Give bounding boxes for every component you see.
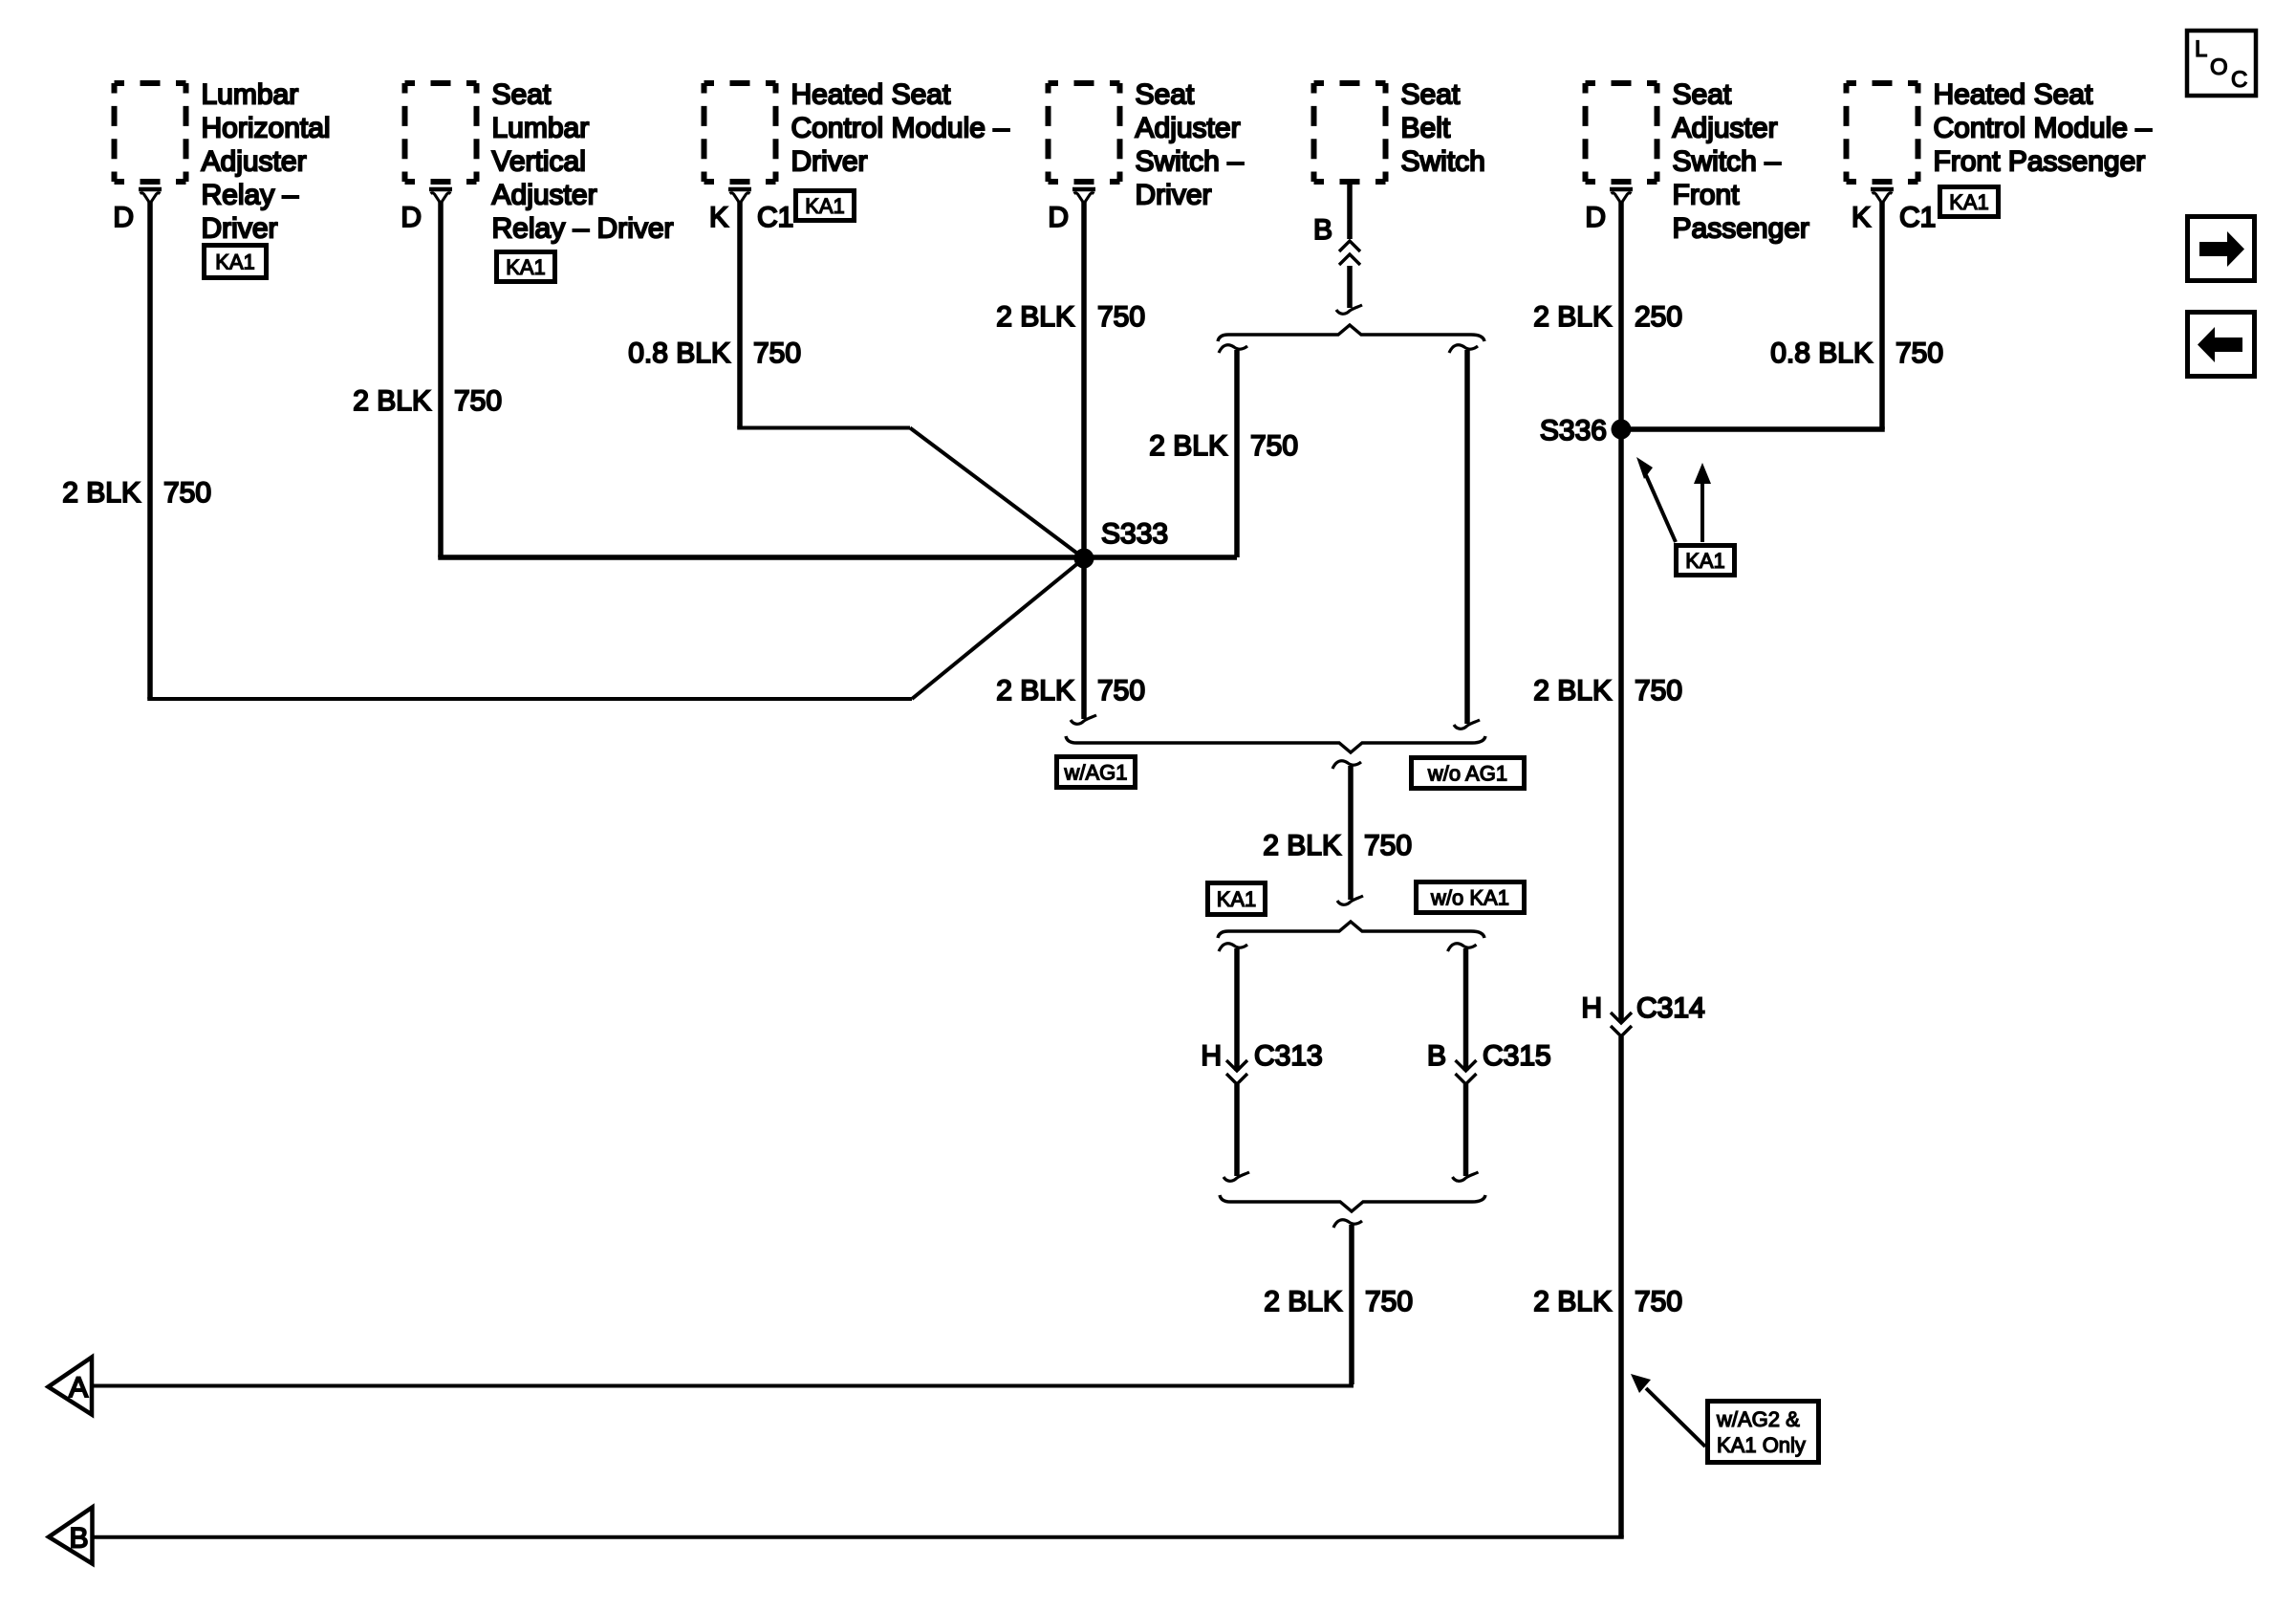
svg-text:C: C	[2231, 67, 2247, 93]
wire 2 BLK 750 below splice S336 through connector C314	[1611, 429, 1632, 1537]
terminal fork pin of connector 6	[1610, 189, 1633, 202]
previous-page left arrow icon	[2188, 313, 2255, 377]
horizontal wire through splice S333	[438, 555, 1237, 560]
svg-text:250: 250	[1635, 301, 1682, 333]
horizontal wire from splice S336 to wire 7	[1621, 426, 1885, 432]
terminal fork pin of connector 3	[728, 189, 751, 202]
terminal fork pin of connector 7	[1871, 189, 1894, 202]
svg-text:KA1: KA1	[1949, 190, 1989, 214]
brace splitting Seat Belt Switch wire into w/AG1 and w/o AG1 branches	[1218, 325, 1484, 341]
svg-text:K: K	[709, 202, 728, 233]
wire 2 BLK 750 from Seat Lumbar Vertical Adjuster Relay pin D	[438, 201, 444, 557]
next-page right arrow icon	[2188, 217, 2255, 281]
connector Seat Belt Switch	[1314, 79, 1485, 183]
svg-text:C313: C313	[1254, 1040, 1323, 1072]
connector Seat Adjuster Switch - Driver	[1049, 79, 1245, 211]
brace merging w/AG1 and w/o AG1 into single ground wire	[1066, 736, 1485, 752]
svg-text:2 BLK: 2 BLK	[996, 301, 1074, 333]
connector Lumbar Horizontal Adjuster Relay - Driver	[115, 79, 331, 245]
svg-text:2 BLK: 2 BLK	[996, 675, 1074, 707]
label 0.8 BLK 750 (wire 3)	[628, 337, 801, 369]
w/o KA1 branch wire through connector C315	[1448, 944, 1479, 1182]
svg-text:KA1: KA1	[805, 194, 845, 218]
svg-text:KA1: KA1	[1217, 887, 1257, 911]
KA1 tag (middle option)	[1208, 883, 1266, 915]
KA1 branch wire through connector C313	[1219, 944, 1249, 1182]
svg-text:750: 750	[1365, 1286, 1413, 1317]
brace merging KA1 / w/o KA1 branches	[1220, 1195, 1485, 1211]
label 2 BLK 750 (wire 6 bottom)	[1533, 1286, 1682, 1317]
svg-text:K: K	[1852, 202, 1871, 233]
svg-text:KA1: KA1	[1685, 549, 1725, 573]
pin H and connector C314 label	[1581, 992, 1704, 1024]
wire lead A to ground G305	[92, 1384, 1354, 1388]
label 0.8 BLK 750 (wire 7)	[1770, 337, 1943, 369]
wire 2 BLK 750 from Lumbar Horizontal Adjuster Relay pin D	[147, 201, 1084, 699]
svg-text:2 BLK: 2 BLK	[1533, 301, 1612, 333]
KA1 tag (connector 3)	[796, 191, 855, 221]
svg-text:B: B	[1313, 214, 1332, 246]
svg-text:KA1: KA1	[506, 255, 546, 279]
wire 0.8 BLK 750 from Heated Seat Control Module - Front Passenger pin K	[1879, 201, 1885, 429]
svg-text:2 BLK: 2 BLK	[1264, 1286, 1342, 1317]
svg-text:2 BLK: 2 BLK	[1263, 830, 1341, 861]
svg-text:C314: C314	[1636, 992, 1705, 1024]
splice S333	[1074, 518, 1169, 569]
label 2 BLK 750 (bottom merge wire)	[1264, 1286, 1413, 1317]
svg-text:w/AG1: w/AG1	[1063, 760, 1127, 784]
svg-text:S336: S336	[1540, 415, 1607, 446]
label 2 BLK 750 (wire 4 upper)	[996, 301, 1145, 333]
svg-text:KA1 Only: KA1 Only	[1717, 1433, 1806, 1457]
svg-text:750: 750	[163, 477, 211, 509]
svg-text:L: L	[2195, 36, 2207, 62]
connector Heated Seat Control Module - Driver C1	[704, 79, 1010, 183]
svg-text:750: 750	[1097, 675, 1145, 707]
off-page triangle A	[49, 1358, 93, 1415]
wire from Seat Belt Switch pin B with harness continuation chevrons	[1336, 185, 1362, 314]
svg-text:0.8 BLK: 0.8 BLK	[628, 337, 730, 369]
svg-text:H: H	[1581, 992, 1602, 1024]
svg-text:750: 750	[1895, 337, 1943, 369]
label 2 BLK 750 (wire 2)	[353, 385, 502, 417]
svg-text:C1: C1	[757, 202, 793, 233]
left branch wire (to S333 horizontal)	[1219, 345, 1247, 557]
svg-text:750: 750	[454, 385, 502, 417]
wire 2 BLK 250 from Seat Adjuster Switch - Front Passenger pin D	[1618, 201, 1624, 429]
svg-text:w/o AG1: w/o AG1	[1427, 761, 1507, 785]
svg-text:750: 750	[1250, 430, 1298, 462]
label 2 BLK 750 (left branch)	[1149, 430, 1298, 462]
svg-text:C315: C315	[1483, 1040, 1551, 1072]
terminal fork pin of connector 1	[139, 189, 162, 202]
svg-text:w/o KA1: w/o KA1	[1430, 885, 1509, 909]
KA1 tag (connector 7)	[1940, 187, 1999, 217]
w/o KA1 tag	[1417, 882, 1525, 913]
svg-text:750: 750	[1364, 830, 1412, 861]
right branch wire (w/o AG1)	[1449, 345, 1480, 729]
brace splitting into KA1 and w/o KA1 branches	[1218, 922, 1484, 938]
svg-text:A: A	[69, 1372, 88, 1404]
wire 2 BLK 750 between option braces	[1332, 761, 1363, 905]
svg-text:B: B	[69, 1523, 88, 1555]
svg-text:C1: C1	[1899, 202, 1936, 233]
KA1 tag (connector 1)	[205, 246, 267, 278]
svg-text:0.8 BLK: 0.8 BLK	[1770, 337, 1873, 369]
svg-text:750: 750	[1635, 1286, 1682, 1317]
off-page triangle B	[49, 1508, 93, 1564]
KA1 tag (connector 2)	[497, 252, 555, 282]
label 2 BLK 750 (wire 4 lower)	[996, 675, 1145, 707]
KA1 tag with pointers at splice S336	[1636, 457, 1735, 576]
svg-text:750: 750	[1635, 675, 1682, 707]
pin H and connector C313 label	[1201, 1040, 1322, 1072]
wire 0.8 BLK 750 from Heated Seat Control Module - Driver pin K	[737, 201, 1084, 558]
svg-text:S333: S333	[1101, 518, 1168, 550]
label 2 BLK 250 (wire 6 top)	[1533, 301, 1682, 333]
w/o AG1 tag	[1412, 758, 1525, 789]
wire lead B to ground G306	[93, 1535, 1624, 1539]
svg-text:H: H	[1201, 1040, 1222, 1072]
label 2 BLK 750 (middle wire)	[1263, 830, 1412, 861]
w/AG1 tag	[1057, 757, 1136, 788]
wire 2 BLK 750 below splice S333	[1071, 557, 1096, 724]
svg-text:750: 750	[753, 337, 801, 369]
svg-text:2 BLK: 2 BLK	[62, 477, 141, 509]
svg-text:D: D	[401, 202, 422, 233]
splice S336	[1540, 415, 1632, 446]
svg-text:2 BLK: 2 BLK	[353, 385, 431, 417]
svg-text:D: D	[1048, 202, 1069, 233]
terminal fork pin of connector 2	[429, 189, 452, 202]
svg-text:2 BLK: 2 BLK	[1149, 430, 1227, 462]
w/AG2 & KA1 Only tag with pointer	[1631, 1374, 1819, 1463]
LOC legend icon	[2187, 31, 2256, 96]
svg-text:2 BLK: 2 BLK	[1533, 1286, 1612, 1317]
svg-text:750: 750	[1097, 301, 1145, 333]
svg-text:D: D	[1585, 202, 1606, 233]
svg-text:D: D	[113, 202, 134, 233]
label 2 BLK 750 (wire 6 middle)	[1533, 675, 1682, 707]
label 2 BLK 750 (wire 1)	[62, 477, 211, 509]
svg-text:O: O	[2210, 54, 2228, 80]
svg-text:2 BLK: 2 BLK	[1533, 675, 1612, 707]
svg-text:w/AG2 &: w/AG2 &	[1716, 1407, 1800, 1431]
pin B and connector C315 label	[1427, 1040, 1551, 1072]
wire 2 BLK 750 down to ground lead A	[1333, 1220, 1362, 1384]
wire 2 BLK 750 from Seat Adjuster Switch - Driver pin D	[1081, 201, 1087, 557]
terminal fork pin of connector 4	[1072, 189, 1095, 202]
connector Seat Lumbar Vertical Adjuster Relay - Driver	[405, 79, 674, 245]
svg-text:KA1: KA1	[215, 250, 255, 273]
connector Seat Adjuster Switch - Front Passenger	[1586, 79, 1809, 245]
connector Heated Seat Control Module - Front Passenger C1	[1847, 79, 2153, 183]
svg-text:B: B	[1427, 1040, 1446, 1072]
